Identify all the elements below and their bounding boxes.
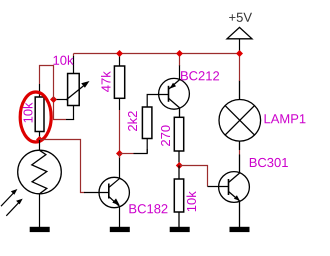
transistor Q2 BC212 (PNP): [159, 65, 220, 117]
wire node D to BC301 base: [179, 166, 207, 187]
svg-text:BC182: BC182: [128, 201, 168, 216]
ground (LDR): [30, 227, 50, 232]
junction dot BC212 emitter on rail: [176, 50, 183, 57]
svg-text:270: 270: [158, 125, 173, 147]
node A junction dot (wiper/pot-bottom/R-top): [50, 96, 57, 103]
junction dot rail/+5V/lamp: [236, 50, 243, 57]
node D junction dot (270/10k/BC301 base wire): [176, 162, 183, 169]
node B junction dot (R-bottom/LDR/base wire): [36, 136, 43, 143]
svg-text:+5V: +5V: [228, 10, 252, 25]
wire lamp bottom to BC301 collector: [239, 150, 241, 155]
node C junction dot (47k/2k2/BC182 collector): [116, 150, 123, 157]
svg-text:LAMP1: LAMP1: [263, 111, 306, 126]
lamp LAMP1: [219, 81, 306, 151]
wire rail to lamp top: [239, 54, 241, 82]
wire node C to BC182 collector: [119, 154, 121, 159]
LDR photoresistor: [18, 140, 62, 227]
ground (BC182 emitter): [110, 227, 130, 232]
wire node C to 2k2 bottom: [120, 149, 148, 154]
ground (10k resistor): [170, 227, 190, 232]
wire pot wiper to node A: [54, 99, 67, 101]
ground (BC301 emitter): [230, 227, 250, 232]
resistor 2k2: [125, 95, 168, 154]
LDR light arrow 1: [1, 189, 17, 206]
LDR light arrow 2: [6, 199, 22, 216]
svg-text:10k: 10k: [184, 191, 199, 212]
potentiometer VR1 10k: [52, 53, 89, 120]
svg-text:2k2: 2k2: [125, 111, 140, 132]
transistor Q3 BC301 (NPN): [208, 155, 289, 228]
resistor 10k (emitter): [174, 166, 199, 228]
wire top +5V rail: [74, 53, 240, 55]
wire pot bottom terminal to node A: [54, 100, 75, 120]
junction dot 47k top on rail: [116, 50, 123, 57]
svg-text:BC212: BC212: [180, 68, 220, 83]
wire node B to BC182 base: [40, 140, 85, 193]
wire 47k bottom to node C: [119, 110, 121, 154]
wire rail to BC212 emitter: [179, 54, 181, 66]
svg-text:47k: 47k: [99, 71, 114, 92]
svg-text:10k: 10k: [52, 53, 73, 68]
power +5V supply symbol: [227, 10, 252, 54]
wire node A to top of highlighted resistor: [40, 66, 54, 100]
highlight ellipse (red selection ring): [20, 92, 51, 142]
resistor 47k: [99, 54, 125, 111]
svg-text:BC301: BC301: [249, 155, 289, 170]
resistor 10k (highlighted): [21, 84, 44, 140]
resistor 270: [158, 117, 184, 162]
transistor Q1 BC182 (NPN): [84, 157, 168, 227]
